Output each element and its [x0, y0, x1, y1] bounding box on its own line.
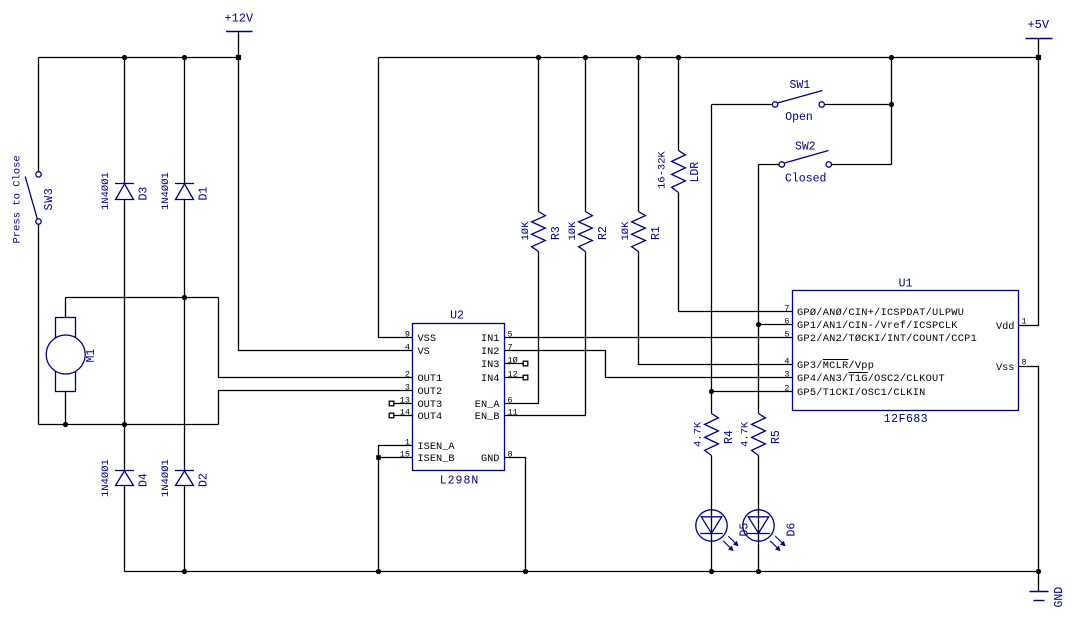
svg-text:SW3: SW3 — [43, 187, 56, 210]
U1 left pin names — [797, 307, 977, 399]
wire SW1 right — [825, 104, 892, 106]
svg-text:7: 7 — [784, 303, 789, 313]
wire SW3 bottom — [38, 225, 40, 425]
svg-text:ISEN_A: ISEN_A — [418, 441, 456, 453]
wire R1 top — [638, 58, 640, 212]
wire +12V stem — [238, 32, 240, 58]
svg-text:9: 9 — [405, 329, 410, 339]
svg-text:IN1: IN1 — [481, 333, 500, 345]
wire R2 top — [585, 58, 587, 212]
diode D4 (1N4001) — [115, 471, 134, 486]
svg-text:OUT4: OUT4 — [418, 411, 443, 423]
svg-text:+5V: +5V — [1027, 18, 1049, 32]
wire Vss to ground — [1019, 367, 1039, 572]
wire motor bottom lead — [65, 392, 67, 425]
power +12V supply symbol — [224, 12, 254, 32]
switch SW1 — [772, 91, 824, 108]
svg-text:L298N: L298N — [440, 475, 480, 488]
svg-text:7: 7 — [508, 342, 513, 352]
svg-text:Press to Close: Press to Close — [12, 155, 24, 243]
svg-text:1ØK: 1ØK — [520, 221, 532, 241]
svg-text:EN_A: EN_A — [475, 399, 501, 411]
svg-text:1: 1 — [1022, 316, 1027, 326]
svg-text:2: 2 — [405, 369, 410, 379]
svg-text:14: 14 — [400, 407, 410, 417]
junction ground rail at ISEN — [376, 569, 381, 574]
svg-text:GP4/AN3/T1G/OSC2/CLKOUT: GP4/AN3/T1G/OSC2/CLKOUT — [797, 373, 945, 385]
svg-text:16-32K: 16-32K — [657, 150, 669, 189]
U1 left pin numbers — [784, 303, 789, 393]
svg-text:LDR: LDR — [689, 162, 702, 183]
svg-text:U2: U2 — [450, 310, 464, 323]
wire ISEN_B — [379, 457, 413, 459]
svg-text:4.7K: 4.7K — [693, 421, 705, 447]
svg-text:1N4ØØ1: 1N4ØØ1 — [100, 172, 112, 210]
wire Vdd to +5V — [1019, 58, 1039, 326]
wire +12V rail top-left — [39, 57, 239, 59]
svg-text:11: 11 — [508, 407, 518, 417]
svg-text:ISEN_B: ISEN_B — [418, 453, 455, 465]
resistor R2 10K — [579, 212, 593, 252]
svg-text:IN3: IN3 — [481, 359, 500, 371]
power +5V supply symbol — [1026, 18, 1053, 39]
wire motor top lead — [65, 298, 67, 318]
junction SW1 right column — [889, 102, 894, 107]
svg-text:4: 4 — [784, 356, 789, 366]
switch SW2 — [779, 151, 831, 168]
svg-text:1N4ØØ1: 1N4ØØ1 — [160, 459, 172, 497]
wire SW2 left — [759, 164, 780, 166]
svg-text:EN_B: EN_B — [475, 411, 500, 423]
op-amp U1 12F683 box — [793, 291, 1019, 411]
op-amp U2 L298N box — [413, 324, 505, 471]
svg-text:D1: D1 — [198, 187, 211, 201]
LED D5 — [696, 510, 739, 551]
junction +5V rail at LDR — [676, 55, 681, 60]
svg-text:Vss: Vss — [996, 362, 1015, 374]
wire GP5 tap — [712, 391, 793, 393]
junction ISEN_B — [376, 455, 381, 460]
wire SW column vertical — [891, 58, 893, 165]
wire R1 bottom to GP3 — [639, 252, 793, 365]
svg-text:6: 6 — [784, 316, 789, 326]
svg-text:SW1: SW1 — [789, 79, 810, 92]
junction +5V rail at +5V stem — [1036, 55, 1041, 60]
junction motor bottom at M1 — [63, 422, 68, 427]
svg-text:D4: D4 — [138, 473, 151, 487]
junction ground rail at U2 GND — [523, 569, 528, 574]
svg-text:5: 5 — [508, 329, 513, 339]
svg-text:+12V: +12V — [224, 12, 254, 26]
U1 right pin numbers — [1022, 316, 1027, 367]
wire +5V stem — [1038, 39, 1040, 58]
diode D3 (1N4001) — [115, 184, 134, 200]
wire SW1 column down to R4 — [711, 105, 713, 414]
wire motor bottom rail — [39, 424, 219, 426]
svg-text:4.7K: 4.7K — [740, 421, 752, 447]
wire motor top rail — [66, 297, 219, 299]
wire +12V to VS pin — [239, 58, 413, 351]
svg-text:OUT3: OUT3 — [418, 399, 443, 411]
svg-text:Open: Open — [785, 111, 813, 124]
junction +5V rail at R3 — [536, 55, 541, 60]
U2 right pin names — [475, 333, 501, 465]
junction GP1 tap on R5 column — [756, 322, 761, 327]
junction +5V rail at R1 — [636, 55, 641, 60]
svg-text:8: 8 — [1022, 357, 1027, 367]
wire D2 anode to ground rail — [184, 486, 186, 572]
overline T1G — [848, 372, 867, 374]
wire R5 to LED D6 and ground — [758, 456, 760, 572]
junction +5V rail at R2 — [583, 55, 588, 60]
svg-text:1N4ØØ1: 1N4ØØ1 — [160, 172, 172, 210]
svg-text:R1: R1 — [650, 226, 663, 240]
wire R3 bottom to EN_A — [505, 252, 539, 404]
U2 left pin numbers — [400, 329, 410, 459]
wire GP1 tap — [759, 324, 793, 326]
svg-text:8: 8 — [508, 449, 513, 459]
svg-text:1ØK: 1ØK — [567, 221, 579, 241]
wire R3 top — [538, 58, 540, 212]
resistor R3 10K — [532, 212, 546, 252]
wire VSS to +5V rail — [379, 58, 413, 338]
junction on +12V rail at D3 — [122, 55, 127, 60]
svg-text:1ØK: 1ØK — [620, 221, 632, 241]
junction ground rail at GND symbol — [1036, 569, 1041, 574]
wire IN2 to GP4 — [505, 351, 793, 378]
resistor LDR 16-32K — [672, 151, 686, 193]
svg-text:R2: R2 — [597, 226, 610, 240]
resistor R4 4.7K — [705, 414, 719, 456]
svg-text:VSS: VSS — [418, 333, 437, 345]
svg-text:12F683: 12F683 — [884, 413, 928, 426]
svg-text:D3: D3 — [138, 187, 151, 201]
junction motor top at D1 column — [182, 295, 187, 300]
wire LDR top — [678, 58, 680, 151]
svg-text:GP5/T1CKI/OSC1/CLKIN: GP5/T1CKI/OSC1/CLKIN — [797, 387, 926, 399]
svg-text:D2: D2 — [198, 473, 211, 487]
resistor R1 10K — [632, 212, 646, 252]
wire ISEN_A — [379, 446, 413, 572]
svg-text:1Ø: 1Ø — [508, 355, 518, 365]
svg-text:GPØ/ANØ/CIN+/ICSPDAT/ULPWU: GPØ/ANØ/CIN+/ICSPDAT/ULPWU — [797, 307, 964, 319]
pin 12 stub IN4 — [505, 377, 524, 379]
svg-text:3: 3 — [405, 382, 410, 392]
svg-text:OUT1: OUT1 — [418, 373, 443, 385]
wire ground rail — [125, 571, 1039, 573]
svg-text:IN4: IN4 — [481, 373, 500, 385]
wire motor loop right lower (to OUT2) — [219, 391, 413, 425]
svg-text:D6: D6 — [786, 523, 799, 537]
resistor R5 4.7K — [752, 414, 766, 456]
switch SW3 — [25, 172, 41, 225]
ground symbol — [1030, 592, 1049, 601]
U2 left pin names — [418, 333, 456, 465]
svg-text:4: 4 — [405, 342, 410, 352]
wire IN1 to GP2 — [505, 337, 793, 339]
wire SW1 left — [712, 104, 773, 106]
svg-text:GP2/AN2/TØCKI/INT/COUNT/CCP1: GP2/AN2/TØCKI/INT/COUNT/CCP1 — [797, 333, 977, 345]
motor M1 — [46, 318, 85, 392]
svg-text:GP3/MCLR/Vpp: GP3/MCLR/Vpp — [797, 360, 874, 372]
junction +12V rail / stem — [236, 55, 241, 60]
wire D1 cathode — [184, 58, 186, 184]
diode D1 (1N4001) — [175, 184, 194, 200]
junction ground rail at D2 — [182, 569, 187, 574]
wire D3 cathode — [124, 58, 126, 184]
diode D2 (1N4001) — [175, 471, 194, 486]
svg-text:Closed: Closed — [785, 172, 826, 185]
svg-text:12: 12 — [508, 369, 518, 379]
LED D6 — [743, 510, 786, 551]
pin 10 stub IN3 — [505, 363, 524, 365]
wire SW3 top — [38, 58, 40, 172]
pin 13 stub OUT3 — [394, 403, 413, 405]
svg-text:R3: R3 — [550, 226, 563, 240]
svg-text:OUT2: OUT2 — [418, 386, 443, 398]
svg-text:5: 5 — [784, 329, 789, 339]
junction on +12V rail at D1 — [182, 55, 187, 60]
pin 14 stub OUT4 — [394, 415, 413, 417]
svg-text:VS: VS — [418, 346, 430, 358]
wire SW2 column down to R5 — [758, 165, 760, 414]
svg-text:R4: R4 — [723, 430, 736, 444]
svg-text:3: 3 — [784, 369, 789, 379]
wire motor loop right upper (to OUT1) — [219, 298, 413, 378]
svg-text:13: 13 — [400, 395, 410, 405]
wire U2 GND to ground rail — [505, 458, 526, 572]
svg-text:GP1/AN1/CIN-/Vref/ICSPCLK: GP1/AN1/CIN-/Vref/ICSPCLK — [797, 320, 958, 332]
U1 right pin names — [996, 321, 1015, 374]
svg-text:IN2: IN2 — [481, 346, 500, 358]
svg-text:Vdd: Vdd — [996, 321, 1015, 333]
junction motor bottom at D4 — [122, 422, 127, 427]
junction ground rail at D5 — [709, 569, 714, 574]
svg-text:15: 15 — [400, 449, 410, 459]
wire +5V rail top-right — [379, 57, 1039, 59]
junction ground rail at D6 — [756, 569, 761, 574]
wire D1 anode down to D2 — [184, 200, 186, 471]
svg-text:GND: GND — [481, 453, 500, 465]
svg-text:U1: U1 — [899, 277, 913, 290]
svg-text:1: 1 — [405, 437, 410, 447]
svg-text:6: 6 — [508, 395, 513, 405]
wire R2 bottom to EN_B — [505, 252, 586, 416]
wire GND stem — [1038, 572, 1040, 593]
svg-text:SW2: SW2 — [795, 140, 816, 153]
svg-text:1N4ØØ1: 1N4ØØ1 — [100, 459, 112, 497]
wire D4 anode to ground rail — [124, 486, 126, 572]
wire LDR bottom to GP0 — [679, 193, 793, 312]
overline MCLR — [823, 359, 849, 361]
svg-text:M1: M1 — [85, 349, 98, 363]
wire D3 anode down to D4 — [124, 200, 126, 471]
svg-text:2: 2 — [784, 383, 789, 393]
wire R4 to LED D5 and ground — [711, 456, 713, 572]
U2 right pin numbers — [508, 329, 518, 459]
junction +5V rail at SW column — [889, 55, 894, 60]
wire SW2 right — [832, 164, 892, 166]
svg-text:GND: GND — [1053, 587, 1066, 608]
junction GP5 tap on R4 column — [709, 389, 714, 394]
svg-text:R5: R5 — [770, 430, 783, 444]
